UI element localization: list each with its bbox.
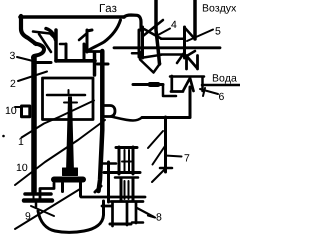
vessel top right jog [88, 50, 102, 53]
label Вода [213, 74, 237, 83]
pipe down from mixer [133, 83, 163, 86]
flange bar 2 [24, 198, 52, 203]
flare top [185, 28, 194, 38]
igniter line [47, 94, 85, 97]
label 1 [19, 138, 24, 145]
hx right [132, 147, 135, 174]
hx leg [107, 162, 110, 202]
ejector V2 [183, 27, 186, 58]
wall foot [95, 186, 101, 192]
riser pipe [156, 0, 160, 64]
hx inner left [124, 150, 126, 171]
nozzle diag [79, 34, 86, 40]
water line [202, 84, 240, 87]
valve drop pipe [189, 87, 192, 117]
burner inner wall right [83, 44, 86, 61]
hx leg tick [103, 162, 116, 165]
label 9 [26, 212, 31, 219]
burner tube 1 [46, 29, 56, 62]
burner inner hook [60, 43, 66, 46]
gas pipe horizontal [20, 15, 124, 19]
label 10b [17, 164, 28, 171]
leader 10b [15, 120, 105, 185]
mixing tube top [161, 37, 184, 40]
nozzle arrow [87, 30, 92, 52]
flange stem [35, 203, 38, 207]
cross diag [148, 131, 165, 165]
hx inner tick [122, 161, 131, 163]
hx left [118, 147, 121, 174]
vessel top left [36, 61, 51, 64]
flare lower left [177, 53, 184, 63]
igniter tick [68, 90, 70, 94]
leader 6 [200, 89, 218, 94]
hx lower right [132, 178, 135, 201]
leader 2 [18, 72, 47, 82]
label 3 [10, 52, 15, 59]
water line riser [201, 77, 204, 91]
label 7 [185, 154, 190, 161]
label 6 [219, 93, 224, 100]
under-bell line [81, 196, 145, 199]
hx lower inner [125, 181, 129, 199]
dome [38, 201, 104, 232]
valve6 body [171, 76, 194, 92]
leader 5 [187, 30, 213, 42]
pipe y117 [142, 116, 190, 119]
label 5 [215, 27, 220, 34]
leader 9b [31, 206, 54, 216]
bell box left [61, 183, 64, 192]
N valve [187, 56, 198, 70]
pouch to pipe bend [111, 117, 142, 121]
hx bottom bar [110, 223, 131, 226]
hx lower left [120, 178, 123, 201]
inner firebox rect [43, 78, 94, 120]
ejector strike [143, 20, 163, 36]
lower line right [102, 202, 143, 227]
gas arch [124, 15, 141, 30]
pipe bend J [89, 20, 121, 50]
label Газ [100, 4, 117, 12]
hook down [163, 85, 176, 96]
spike crossbar [64, 102, 77, 104]
burner inner wall left [65, 44, 68, 61]
leader 3 [17, 57, 33, 61]
hx top [116, 146, 137, 149]
cone bottom [144, 55, 162, 58]
drop to 7 [164, 117, 167, 172]
label 4 [171, 21, 176, 28]
spike base [63, 168, 78, 176]
cone top [144, 29, 161, 39]
leader 4 [158, 29, 170, 36]
tick 7 [160, 167, 172, 170]
gas pipe left corner and down [21, 16, 36, 44]
casing curl left [33, 44, 44, 58]
vessel left wall [31, 57, 37, 192]
funnel left [132, 52, 160, 73]
label 2 [11, 80, 16, 87]
flange bolt [33, 195, 35, 199]
hx mid bar [104, 171, 140, 174]
lower diag [152, 168, 166, 182]
ejector V1 [139, 27, 143, 58]
bell bar [54, 177, 83, 183]
vessel lip right [97, 63, 108, 66]
label 10a [6, 107, 16, 114]
upper water line [170, 75, 204, 78]
bell box right [79, 183, 82, 196]
center line [114, 46, 220, 49]
hx inner right [128, 150, 130, 171]
burner channel [56, 59, 95, 63]
jog drop [93, 53, 97, 75]
label Воздух [203, 4, 236, 13]
leader 1 [22, 101, 95, 138]
stray dot [2, 135, 5, 138]
air pipe [193, 0, 197, 39]
label 8 [157, 213, 162, 220]
flange bar 1 [25, 192, 51, 196]
shutter diagonal [39, 34, 51, 52]
steps left [29, 183, 54, 200]
burner spike [67, 97, 74, 172]
air shutter plate [33, 32, 55, 39]
leader 6 tick [203, 88, 205, 96]
leader 9 [15, 189, 80, 229]
hx lowest bar [132, 221, 143, 224]
leader 7 [165, 156, 182, 157]
leader 10a [15, 106, 22, 108]
junction blob [150, 82, 158, 87]
leader 8 [137, 208, 155, 218]
vessel right wall [99, 51, 103, 191]
flare bottom [185, 51, 195, 57]
thermo clamp [22, 106, 30, 117]
pouch [104, 106, 115, 117]
hx bar 2 [115, 176, 138, 179]
mixing tube bottom [161, 53, 184, 56]
